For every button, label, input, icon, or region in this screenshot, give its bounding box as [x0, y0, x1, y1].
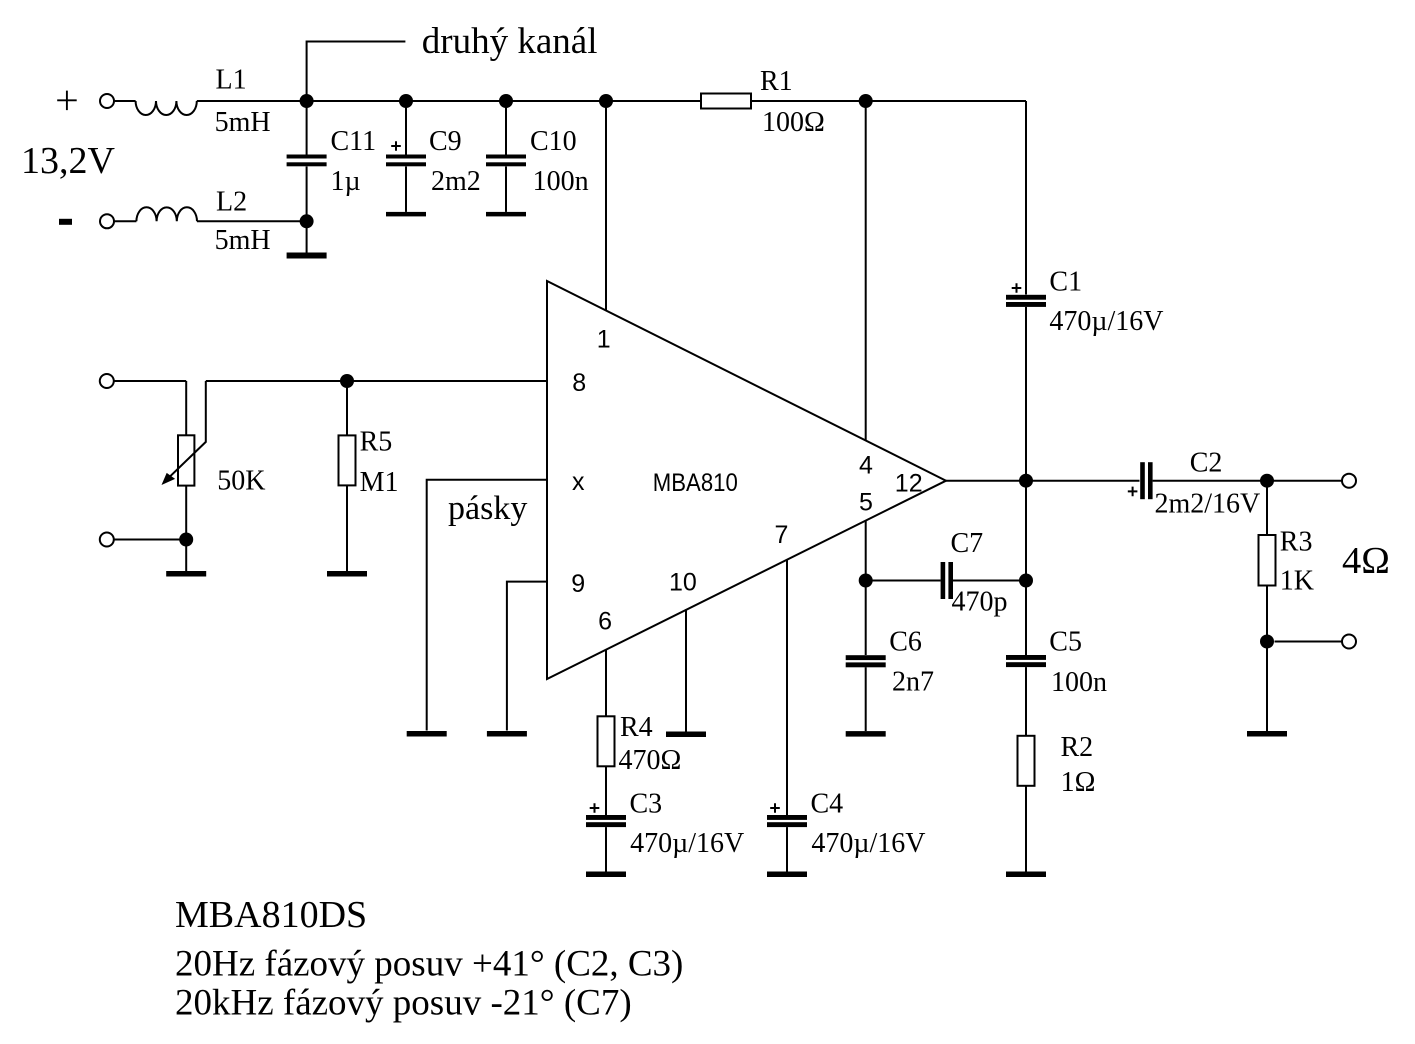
svg-text:C4: C4: [811, 789, 844, 820]
svg-text:C3: C3: [630, 789, 663, 820]
node output/C1 junction: [1019, 474, 1033, 488]
wire C2 to output terminal: [1153, 480, 1342, 482]
resistor R4: [598, 716, 615, 766]
svg-text:MBA810: MBA810: [653, 469, 738, 497]
label plus terminal: [57, 91, 76, 111]
wire pin8 node to R5: [346, 381, 348, 435]
wire C11 to ground: [306, 167, 308, 253]
capacitor C2: [1140, 462, 1152, 499]
node pin5/C7 junction: [859, 574, 873, 588]
svg-text:50K: 50K: [217, 466, 265, 497]
wire rail to C9: [405, 101, 407, 155]
node output bottom junction: [1260, 635, 1274, 649]
svg-text:C10: C10: [530, 126, 577, 157]
wire corner down to C1: [1025, 101, 1027, 295]
ground under R3: [1247, 731, 1287, 737]
terminal output bottom: [1342, 635, 1356, 649]
wire C9 to ground: [405, 167, 407, 212]
ground under C4: [767, 872, 807, 878]
wire wiper to pin 8: [206, 380, 547, 382]
svg-text:4Ω: 4Ω: [1342, 540, 1390, 582]
svg-text:6: 6: [598, 608, 612, 636]
wire R1 to C1 corner: [751, 100, 1026, 102]
wire pin 7 to C4: [786, 560, 788, 815]
node rail at pin 4 wire: [859, 94, 873, 108]
ground under C6: [846, 731, 886, 737]
inductor L2: [136, 207, 197, 221]
wire R2 to ground: [1025, 786, 1027, 872]
ground under C3: [586, 872, 626, 878]
wire C6 to ground: [865, 667, 867, 731]
svg-text:470µ/16V: 470µ/16V: [1049, 306, 1163, 337]
svg-text:5mH: 5mH: [215, 107, 271, 138]
wire pin 10 to ground: [685, 609, 687, 731]
wire pin 5 down: [865, 521, 867, 655]
svg-text:12: 12: [895, 470, 923, 498]
svg-text:C6: C6: [889, 627, 922, 658]
svg-text:C9: C9: [429, 126, 462, 157]
svg-text:100Ω: 100Ω: [762, 107, 825, 138]
svg-text:20kHz fázový posuv -21° (C7): 20kHz fázový posuv -21° (C7): [175, 983, 632, 1024]
svg-text:R3: R3: [1280, 526, 1313, 557]
ground under R5: [327, 571, 367, 577]
capacitor C10: [486, 155, 526, 167]
wire junction to C7: [866, 580, 941, 582]
node pot bottom junction: [179, 533, 193, 547]
svg-text:1Ω: 1Ω: [1061, 767, 1096, 798]
ground under potentiometer: [166, 571, 206, 577]
wire pin 9 to ground: [507, 582, 547, 731]
capacitor C6: [846, 655, 886, 667]
wire C4 to ground: [786, 827, 788, 871]
svg-text:R2: R2: [1061, 732, 1094, 763]
wire C7 to C5 node: [952, 580, 1026, 582]
wire output to C2: [946, 480, 1140, 482]
svg-text:R1: R1: [760, 66, 793, 97]
potentiometer 50K body: [178, 435, 194, 485]
svg-text:L2: L2: [216, 187, 247, 218]
svg-text:100n: 100n: [533, 166, 589, 197]
wire input bottom to pot bottom: [114, 539, 186, 541]
wire output node to C5: [1025, 481, 1027, 655]
wire C3 to ground: [605, 827, 607, 871]
wire C1 to output node: [1025, 307, 1027, 481]
terminal - input: [100, 214, 114, 228]
svg-text:C7: C7: [951, 528, 984, 559]
terminal output top: [1342, 474, 1356, 488]
plus mark C4: [770, 803, 780, 813]
wire pin 6 to R4: [605, 650, 607, 716]
svg-text:470µ/16V: 470µ/16V: [811, 828, 925, 859]
wire R3 to ground: [1266, 586, 1268, 732]
svg-text:L1: L1: [216, 65, 247, 96]
wire to output bottom terminal: [1275, 641, 1342, 643]
node C5/C7 junction: [1019, 574, 1033, 588]
node rail at pin 1 wire: [599, 94, 613, 108]
capacitor C7: [941, 562, 953, 599]
ground pin 10: [666, 732, 706, 738]
node rail at C9: [399, 94, 413, 108]
ground under C11: [287, 253, 327, 259]
svg-text:7: 7: [775, 521, 789, 549]
svg-text:pásky: pásky: [448, 490, 527, 527]
svg-text:2m2: 2m2: [431, 166, 481, 197]
svg-text:druhý kanál: druhý kanál: [422, 21, 598, 62]
svg-text:5: 5: [859, 489, 873, 517]
capacitor C1: [1006, 295, 1046, 307]
svg-text:1: 1: [597, 325, 611, 353]
node R5 top: [340, 374, 354, 388]
svg-text:M1: M1: [360, 467, 399, 498]
capacitor C5: [1006, 655, 1046, 667]
svg-text:2m2/16V: 2m2/16V: [1155, 489, 1261, 520]
svg-text:x: x: [572, 468, 585, 496]
wire druhy kanal stub: [307, 42, 406, 102]
ground pin x: [407, 731, 447, 737]
resistor R3: [1259, 535, 1276, 586]
plus mark C3: [590, 803, 600, 813]
resistor R1: [701, 94, 751, 109]
wire rail to C10: [505, 101, 507, 155]
svg-text:C5: C5: [1049, 627, 1082, 658]
wire R5 to ground: [346, 485, 348, 571]
node R3 top: [1260, 474, 1274, 488]
svg-text:R4: R4: [620, 712, 653, 743]
svg-text:C1: C1: [1049, 267, 1082, 298]
wire R4 to C3: [605, 766, 607, 815]
svg-text:MBA810DS: MBA810DS: [175, 894, 367, 936]
wire rail to pin 1: [605, 101, 607, 311]
svg-text:5mH: 5mH: [215, 225, 271, 256]
svg-text:1K: 1K: [1280, 566, 1314, 597]
wire C10 to ground: [505, 167, 507, 212]
svg-text:10: 10: [669, 569, 697, 597]
svg-text:100n: 100n: [1051, 667, 1107, 698]
wire down to pot: [185, 381, 187, 435]
svg-text:8: 8: [572, 369, 586, 397]
svg-text:R5: R5: [360, 427, 393, 458]
ground under R2: [1006, 872, 1046, 878]
terminal input signal bottom: [100, 533, 114, 547]
wire pot bottom to ground: [185, 486, 187, 571]
wire rail to C11: [306, 101, 308, 155]
plus mark C9: [391, 141, 401, 151]
svg-text:1µ: 1µ: [331, 166, 361, 197]
ground under C9: [386, 212, 426, 217]
node rail at C10: [499, 94, 513, 108]
svg-text:470p: 470p: [952, 587, 1008, 618]
inductor L1: [136, 101, 197, 115]
node L2/C11 junction: [300, 214, 314, 228]
wire + terminal to L1: [115, 100, 136, 102]
resistor R5: [339, 435, 356, 485]
svg-text:13,2V: 13,2V: [21, 140, 116, 182]
svg-text:2n7: 2n7: [892, 667, 934, 698]
svg-text:C2: C2: [1190, 448, 1223, 479]
label minus terminal: [59, 219, 72, 225]
wire to R3: [1266, 481, 1268, 535]
capacitor C11: [287, 155, 327, 167]
svg-text:4: 4: [859, 452, 873, 480]
plus mark C2: [1128, 487, 1138, 497]
wire input to potentiometer top: [114, 380, 186, 382]
svg-text:20Hz fázový posuv +41° (C2, C3: 20Hz fázový posuv +41° (C2, C3): [175, 944, 683, 985]
op-amp U1 MBA810 triangle: [547, 281, 946, 679]
terminal input signal top: [100, 374, 114, 388]
wire - terminal to L2: [115, 220, 137, 222]
terminal + input: [100, 94, 114, 108]
potentiometer wiper arrow: [162, 381, 206, 485]
wire pin x to ground: [427, 480, 547, 731]
wire rail to pin 4: [865, 101, 867, 441]
capacitor C4: [767, 815, 807, 827]
wire top rail L1 to R1: [197, 100, 701, 102]
wire L2 to C11 junction: [197, 220, 307, 222]
svg-text:470Ω: 470Ω: [619, 745, 682, 776]
svg-text:C11: C11: [331, 126, 377, 157]
wire C5 to R2: [1025, 667, 1027, 736]
svg-text:470µ/16V: 470µ/16V: [630, 828, 744, 859]
svg-text:9: 9: [571, 570, 585, 598]
capacitor C3: [586, 815, 626, 827]
node rail at C11: [300, 94, 314, 108]
ground under C10: [486, 212, 526, 217]
resistor R2: [1018, 736, 1035, 786]
ground pin 9: [487, 731, 527, 737]
plus mark C1: [1012, 283, 1022, 293]
capacitor C9: [386, 155, 426, 167]
